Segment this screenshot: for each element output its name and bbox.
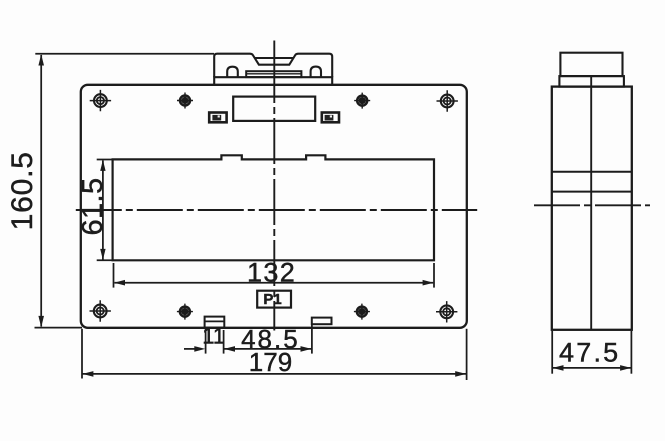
clip bump left: [227, 67, 238, 77]
svg-text:61.5: 61.5: [77, 177, 109, 235]
mounting hole bottom-left (target symbol): [90, 300, 111, 321]
P1 connector box: [257, 291, 291, 308]
mounting hole top-left (target symbol): [90, 90, 111, 111]
main body outline (front view): [81, 85, 467, 328]
dimension 48.5: [224, 325, 312, 354]
svg-text:179: 179: [249, 347, 292, 377]
side view split line 1: [552, 171, 632, 173]
latch marker left: [209, 113, 226, 123]
svg-text:P1: P1: [263, 291, 281, 308]
side view top block upper: [560, 53, 622, 76]
DIN clip upper body with rail notch: [214, 54, 332, 77]
dimension 61.5: [97, 160, 113, 261]
svg-text:11: 11: [202, 323, 225, 348]
front vertical centerline: [273, 41, 275, 331]
side view top block lower: [559, 76, 624, 87]
dimension 47.5: [552, 331, 631, 374]
mounting hole bottom-right (target symbol): [436, 301, 457, 322]
small hole bottom-inner-right: [354, 304, 370, 320]
mounting hole top-right (target symbol): [437, 90, 458, 111]
small hole top-inner-right: [354, 93, 370, 109]
DIN clip base strip: [214, 77, 332, 85]
label window: [233, 97, 315, 121]
dimension 11: [184, 329, 224, 354]
arrow into 11 left: [194, 346, 205, 352]
svg-text:47.5: 47.5: [559, 338, 620, 368]
clip center bar: [246, 71, 301, 77]
bottom tab left: [205, 317, 225, 328]
side view main body: [552, 87, 632, 330]
clip bump right: [311, 67, 321, 77]
dimension 179: [82, 329, 467, 380]
small hole top-inner-left: [177, 93, 193, 109]
dimension 160.5: [35, 54, 215, 328]
side view center parting line: [590, 76, 592, 330]
side view split line 2: [552, 191, 632, 193]
small hole bottom-inner-left: [177, 304, 193, 320]
bottom tab right: [312, 318, 332, 325]
rail notch inner step line: [255, 57, 294, 59]
front horizontal centerline: [76, 209, 477, 211]
inner window rect with top notches: [113, 155, 434, 260]
side view horizontal centerline: [534, 204, 650, 206]
svg-text:132: 132: [247, 258, 296, 288]
dimension 132: [114, 263, 435, 288]
latch marker right: [322, 113, 339, 123]
svg-text:160.5: 160.5: [6, 151, 39, 230]
